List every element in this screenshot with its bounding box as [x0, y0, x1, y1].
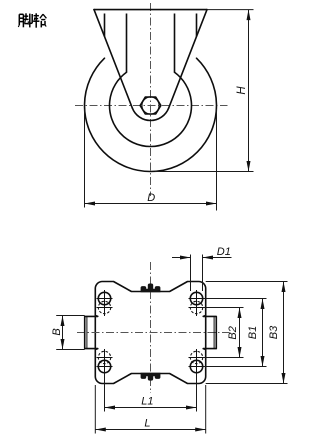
- svg-text:D1: D1: [217, 246, 231, 258]
- svg-text:L1: L1: [141, 395, 153, 407]
- svg-text:D: D: [147, 192, 155, 204]
- svg-text:B1: B1: [247, 326, 259, 339]
- svg-text:B2: B2: [227, 326, 239, 339]
- svg-text:L: L: [144, 417, 150, 429]
- svg-text:B3: B3: [268, 325, 280, 339]
- svg-text:H: H: [236, 86, 248, 95]
- svg-text:B: B: [51, 328, 63, 335]
